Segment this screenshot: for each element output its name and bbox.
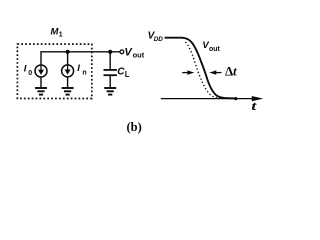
label Vout (circuit): [124, 47, 144, 60]
wire riser In: [67, 52, 69, 65]
ground under CL: [104, 88, 116, 95]
transistor M1 dashed box: [17, 44, 91, 98]
svg-text:L: L: [125, 70, 130, 79]
wire stub CL to ground: [109, 75, 111, 87]
node junction above In: [66, 50, 70, 54]
label I0: [24, 64, 32, 78]
caption (b): [127, 120, 142, 134]
current source In: [62, 65, 74, 77]
label CL: [117, 66, 130, 79]
output terminal circle: [120, 50, 124, 54]
delta-t right arrow: [209, 70, 221, 74]
label Vout (waveform): [202, 40, 220, 53]
wire stub I0 to ground: [40, 77, 42, 87]
svg-text:I: I: [24, 64, 27, 75]
wire top rail: [41, 51, 120, 53]
svg-text:t: t: [251, 99, 257, 113]
node where curves settle on axis: [234, 97, 237, 100]
svg-text:0: 0: [28, 70, 32, 77]
svg-text:Δ: Δ: [225, 64, 233, 79]
solid Vout waveform curve: [165, 38, 236, 99]
wire riser I0: [40, 51, 42, 65]
svg-text:t: t: [233, 64, 237, 79]
svg-text:DD: DD: [154, 36, 164, 43]
node junction above CL: [108, 50, 112, 54]
svg-text:1: 1: [59, 32, 63, 39]
dashed Vout waveform curve: [186, 42, 220, 98]
label delta t: [225, 64, 237, 79]
label M1: [51, 27, 63, 39]
current source I0: [35, 65, 47, 77]
time axis with arrowhead: [161, 96, 263, 101]
label In: [77, 63, 86, 76]
label t axis: [251, 99, 257, 113]
wire stub In to ground: [67, 77, 69, 87]
capacitor CL: [104, 70, 117, 75]
svg-text:(b): (b): [127, 120, 142, 134]
svg-text:out: out: [133, 51, 145, 60]
svg-text:n: n: [82, 70, 86, 77]
delta-t left arrow: [182, 70, 194, 74]
ground under In: [62, 88, 74, 95]
svg-text:I: I: [77, 63, 80, 74]
ground under I0: [35, 88, 47, 95]
label VDD: [148, 31, 164, 43]
svg-text:out: out: [209, 46, 221, 53]
wire riser CL: [109, 52, 111, 69]
